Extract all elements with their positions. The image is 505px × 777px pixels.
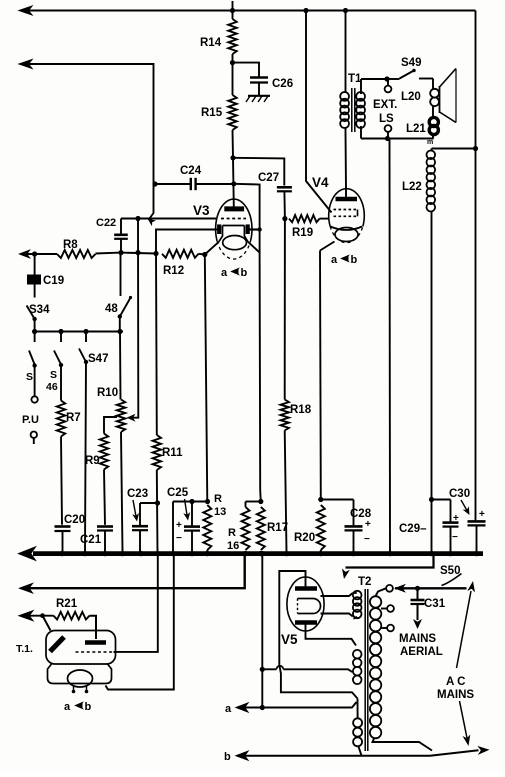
- node V3 anode / C24 crossover: [231, 181, 236, 186]
- node R21 left: [40, 613, 45, 618]
- svg-text:AERIAL: AERIAL: [400, 646, 443, 658]
- resistor R20: [294, 251, 325, 554]
- tube V3 right side-contact: [246, 224, 250, 234]
- tube V3 left side-contact: [217, 224, 221, 234]
- svg-text:a: a: [64, 701, 71, 713]
- tube V5 anode bottom: [295, 620, 317, 625]
- svg-text:R: R: [228, 527, 236, 539]
- wire V3 side-contact left: [156, 230, 219, 254]
- node bus 262.3: [260, 551, 265, 556]
- node L22/right rail: [473, 146, 478, 151]
- wire AVC line with arrow: [19, 60, 156, 227]
- svg-text:S49: S49: [401, 57, 421, 69]
- capacitor C20: [55, 514, 86, 552]
- tube V1 inner anode: [85, 640, 106, 645]
- svg-text:S34: S34: [29, 304, 50, 316]
- ground: [246, 96, 270, 102]
- node bus 286.5: [284, 551, 289, 556]
- node bus 390: [387, 551, 392, 556]
- svg-text:R17: R17: [267, 522, 288, 534]
- svg-text:C21: C21: [80, 534, 102, 546]
- inductor L20 (speech coil): [401, 79, 439, 120]
- svg-text:48: 48: [105, 303, 118, 315]
- node R15 / C27 feed: [230, 155, 235, 160]
- terminal T2 tap 2: [381, 605, 394, 612]
- transformer T2 winding W3: [353, 699, 362, 756]
- node R20/C28: [318, 497, 323, 502]
- svg-text:m: m: [427, 139, 433, 146]
- svg-text:C25: C25: [167, 487, 189, 499]
- tube V3 screen box: [219, 226, 248, 242]
- wire AC mains upper arrow: [457, 581, 476, 668]
- svg-text:C27: C27: [258, 172, 279, 184]
- node C25/R13: [205, 499, 210, 504]
- svg-text:C30: C30: [449, 488, 470, 500]
- label m: [427, 139, 433, 146]
- node R11/C23: [155, 500, 160, 505]
- svg-text:+: +: [365, 519, 371, 530]
- transformer T2 HT secondary: [370, 588, 432, 750]
- node bus 173: [170, 551, 175, 556]
- svg-text:V4: V4: [312, 175, 329, 190]
- svg-text:16: 16: [227, 540, 239, 552]
- svg-text:P.U: P.U: [22, 414, 39, 426]
- svg-text:R18: R18: [290, 404, 312, 416]
- svg-text:R14: R14: [200, 37, 222, 49]
- tube V5 envelope: [281, 577, 324, 647]
- node R8/C22/48: [118, 250, 123, 255]
- svg-text:MAINS: MAINS: [437, 689, 474, 701]
- wire grid return drop: [116, 556, 158, 652]
- svg-text:b: b: [85, 701, 92, 713]
- node bus 122.5: [120, 551, 125, 556]
- svg-text:R15: R15: [201, 107, 223, 119]
- wire V1 grid out: [114, 651, 116, 653]
- wire screen column: [260, 227, 261, 502]
- node bus 260.8: [258, 551, 263, 556]
- pickup P.U terminals: [22, 366, 39, 445]
- capacitor C23: [127, 488, 158, 552]
- svg-text:a: a: [225, 703, 232, 715]
- tube V3 filament right lead: [248, 242, 260, 253]
- wire R10 tap to R9: [104, 417, 117, 434]
- svg-text:R21: R21: [56, 598, 78, 610]
- switch S47: [79, 332, 108, 552]
- svg-text:R12: R12: [163, 265, 184, 277]
- resistor R8: [20, 239, 122, 258]
- node sw bus 4: [117, 329, 122, 334]
- capacitor C25: [167, 487, 208, 552]
- svg-text:R7: R7: [66, 412, 81, 424]
- tube V1 envelope: [16, 631, 116, 665]
- tube V3 filament: [223, 236, 247, 250]
- transformer T1 secondary: [356, 79, 365, 139]
- wire C26 branch: [233, 63, 260, 77]
- capacitor C19: [27, 251, 64, 287]
- wire V3 grid line: [121, 218, 216, 220]
- wire a line: [225, 702, 357, 715]
- wire switch bank bus: [35, 331, 123, 333]
- switch S49: [387, 57, 433, 79]
- node bus 141: [138, 551, 143, 556]
- tube V1 diagonal anode: [50, 637, 64, 652]
- switch S45: [26, 332, 37, 384]
- wire bus to T2 arrow: [342, 556, 434, 579]
- tube V1 grid (dashed): [76, 651, 114, 653]
- label V4 a-b: [331, 254, 358, 266]
- svg-text:C19: C19: [43, 275, 64, 287]
- capacitor C29: [399, 500, 459, 552]
- terminal T2 tap 1: [386, 585, 393, 592]
- capacitor C31: [411, 588, 446, 629]
- label V3 a-b: [221, 267, 248, 279]
- wire filament return drop: [106, 556, 174, 690]
- wire V5 filament top: [321, 593, 353, 596]
- svg-text:−: −: [176, 533, 182, 544]
- svg-text:R20: R20: [294, 532, 315, 544]
- svg-text:V5: V5: [281, 632, 298, 647]
- svg-text:R: R: [214, 493, 222, 505]
- switch S34: [27, 285, 50, 332]
- svg-text:−: −: [364, 534, 370, 545]
- resistor R14: [200, 1, 237, 63]
- transformer T2 winding W2: [353, 650, 362, 684]
- chassis bus: [19, 547, 484, 561]
- svg-text:S: S: [50, 369, 57, 381]
- resistor R21: [19, 598, 96, 639]
- tube V5 anode top: [295, 586, 317, 591]
- capacitor C28: [321, 500, 372, 552]
- node grid-drop crossing: [121, 250, 156, 255]
- switch S46: [46, 332, 63, 394]
- svg-text:+: +: [176, 520, 182, 531]
- svg-text:−: −: [452, 532, 458, 543]
- wire V4 screen feed: [306, 11, 332, 213]
- node C24 left: [152, 181, 157, 186]
- node bus 207.3: [205, 551, 210, 556]
- node bus 85: [82, 551, 87, 556]
- wire V5 filament bottom: [321, 614, 353, 617]
- node R14/R15/C26: [230, 60, 235, 65]
- tube V4 grids (dashed): [334, 210, 359, 217]
- node grid line / volume feed: [135, 216, 140, 221]
- tube V1 skirt: [48, 664, 112, 684]
- node bus 245.5: [243, 551, 248, 556]
- svg-text:b: b: [224, 751, 231, 763]
- svg-text:+: +: [479, 509, 485, 520]
- tube V4 envelope: [312, 175, 364, 243]
- node LS bottom / anode line: [385, 136, 390, 141]
- switch 48: [105, 253, 132, 332]
- transformer T1 primary: [340, 11, 349, 190]
- wire HT+ top rail: [19, 6, 476, 15]
- svg-text:46: 46: [46, 381, 58, 393]
- svg-text:C20: C20: [64, 514, 85, 526]
- inductor L22: [402, 149, 435, 500]
- terminal EXT LS top: [385, 79, 392, 92]
- svg-text:T1: T1: [348, 73, 362, 85]
- node bus 476.5: [474, 551, 479, 556]
- svg-text:L21: L21: [406, 123, 426, 135]
- node bus 62: [59, 551, 64, 556]
- transformer T2 core: [358, 576, 371, 751]
- svg-text:C24: C24: [180, 165, 202, 177]
- node C31 top: [415, 586, 420, 591]
- wire rectifier column: [261, 556, 263, 708]
- tube V3 filament left lead: [205, 242, 219, 255]
- resistor R18: [281, 219, 312, 552]
- svg-text:LS: LS: [379, 113, 394, 125]
- node L22/C29: [429, 497, 434, 502]
- switch S50: [440, 565, 462, 586]
- tube V4 cathode lead: [320, 242, 335, 251]
- wire volume wiper: [127, 219, 139, 422]
- svg-text:S50: S50: [440, 565, 460, 577]
- node sw bus 3: [83, 329, 88, 334]
- svg-text:T.1.: T.1.: [16, 643, 33, 655]
- wire V1 anode-2 lead: [43, 616, 51, 631]
- svg-text:S: S: [26, 371, 33, 383]
- svg-text:L20: L20: [401, 91, 421, 103]
- capacitor C26: [250, 78, 293, 96]
- wire heater line: [20, 556, 245, 593]
- resistor R15: [201, 63, 237, 158]
- tube V4 anode: [336, 190, 358, 200]
- capacitor C22: [96, 217, 128, 253]
- resistor R9: [85, 434, 108, 525]
- wire right rail: [475, 11, 477, 522]
- resistor R7: [57, 365, 81, 525]
- svg-text:b: b: [241, 267, 248, 279]
- label V1 a-b: [64, 701, 92, 713]
- svg-text:13: 13: [214, 506, 226, 518]
- tube V1 filament: [68, 670, 93, 693]
- node sw bus 2: [58, 329, 63, 334]
- svg-text:L22: L22: [402, 181, 422, 193]
- label MAINS AERIAL: [399, 633, 443, 658]
- tube V4 cathode arc: [331, 227, 363, 231]
- svg-text:R11: R11: [162, 447, 183, 459]
- node R19/C27/R18: [282, 216, 287, 221]
- transformer T1 core: [348, 73, 362, 132]
- svg-text:C22: C22: [96, 217, 116, 229]
- node rect column mid: [260, 667, 265, 672]
- node rect column bottom: [260, 705, 265, 710]
- transformer T2 winding W1: [353, 591, 362, 619]
- svg-text:V3: V3: [193, 203, 210, 218]
- svg-text:EXT.: EXT.: [373, 99, 397, 111]
- node bus 431.5: [429, 551, 434, 556]
- terminal T2 tap 3: [381, 625, 394, 632]
- node bus 320.8: [318, 551, 323, 556]
- resistor R10 (volume control): [97, 332, 125, 552]
- wire V3 right side-contact: [248, 227, 262, 231]
- resistor R17: [257, 507, 288, 550]
- inductor L21 (hum coil): [406, 117, 438, 138]
- wire anode feed to C27: [233, 158, 284, 186]
- svg-text:C29–: C29–: [399, 523, 427, 535]
- svg-text:C31: C31: [424, 598, 446, 610]
- wire L22 top link: [432, 148, 476, 150]
- wire EXT-LS line down: [389, 139, 392, 552]
- svg-text:a: a: [221, 267, 228, 279]
- node bus 105: [102, 551, 107, 556]
- resistor R19: [289, 215, 329, 239]
- wire b line: [224, 746, 490, 763]
- node top rail / R14: [230, 8, 235, 13]
- wire W2 tap: [262, 666, 352, 672]
- capacitor C30: [449, 488, 486, 552]
- tube V4 filament: [335, 228, 358, 242]
- wire T1 sec top to LS: [361, 78, 387, 80]
- wire mains line: [394, 584, 467, 593]
- wire L22 to bus: [431, 500, 433, 552]
- node top rail / T1 primary: [343, 8, 348, 13]
- wire LS bottom rail: [361, 138, 434, 140]
- wire V5 anode-bottom feed: [306, 623, 357, 646]
- tube V5 filament: [298, 599, 321, 614]
- resistor R11: [153, 254, 183, 552]
- wire AC mains lower arrow: [460, 701, 471, 746]
- node bus 353.5: [351, 551, 356, 556]
- wire V5 anode-top feed: [279, 571, 357, 699]
- svg-text:b: b: [351, 254, 358, 266]
- node bus 192: [189, 551, 194, 556]
- resistor R12: [162, 250, 205, 277]
- node top rail / V4 screen line: [303, 8, 308, 13]
- wire V3 anode drop: [232, 158, 235, 207]
- terminal EXT LS bottom: [385, 125, 392, 138]
- label EXT LS: [373, 99, 397, 125]
- label A.C MAINS: [437, 676, 474, 701]
- svg-text:a: a: [331, 254, 338, 266]
- svg-text:C23: C23: [127, 488, 148, 500]
- svg-text:R19: R19: [292, 227, 313, 239]
- svg-text:R9: R9: [85, 455, 100, 467]
- resistor R16: [227, 502, 261, 553]
- node bus 450.5: [448, 551, 453, 556]
- resistor R13: [203, 255, 226, 554]
- tube V3 envelope: [193, 199, 252, 259]
- node ext-ls top: [384, 76, 389, 81]
- node R12 right / R13 column: [202, 252, 207, 257]
- node sw bus 1: [32, 329, 37, 334]
- wire crossover to screen column: [234, 184, 260, 227]
- svg-text:A C: A C: [446, 676, 465, 688]
- tube V3 anode: [224, 206, 244, 211]
- node bus 157.5: [155, 551, 160, 556]
- capacitor C24: [155, 165, 232, 190]
- svg-text:MAINS: MAINS: [399, 633, 436, 645]
- loudspeaker: [440, 69, 457, 123]
- svg-text:S47: S47: [88, 353, 108, 365]
- tube V3 grid (dashed): [221, 218, 246, 220]
- capacitor C21: [80, 527, 113, 552]
- svg-text:R10: R10: [97, 387, 118, 399]
- node R16/R17 bracket: [258, 499, 263, 504]
- svg-text:C26: C26: [272, 78, 293, 90]
- capacitor C27: [258, 172, 292, 219]
- svg-text:T2: T2: [358, 576, 371, 588]
- node R12 left: [153, 251, 158, 256]
